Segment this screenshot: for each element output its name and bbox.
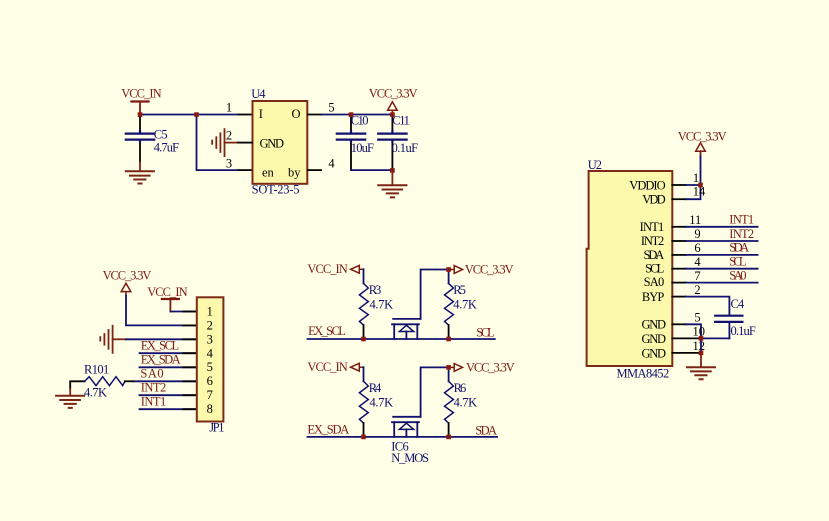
svg-text:R5: R5 [453,283,466,297]
svg-text:GND: GND [642,346,667,360]
wire JP1 pin7 INT2 [140,394,197,396]
IC U2 [587,158,673,380]
svg-text:VCC_IN: VCC_IN [307,360,347,374]
svg-text:1: 1 [693,171,699,185]
pin 2 wire BYP [672,296,686,298]
svg-text:INT2: INT2 [729,227,754,241]
junction R6 / SDA [446,435,451,440]
power VCC_3.3V (SDA) [449,360,515,374]
svg-text:6: 6 [207,374,213,388]
svg-text:MMA8452: MMA8452 [617,367,670,381]
junction VCC_IN / C5 [138,112,143,117]
svg-text:1: 1 [207,304,213,318]
svg-text:0.1uF: 0.1uF [731,324,756,338]
svg-text:C10: C10 [351,114,369,128]
capacitor C5 [126,117,179,171]
pin 6 wire SDA [672,254,686,256]
svg-text:INT2: INT2 [641,234,664,248]
junction top rail / U4 pin3 branch [194,112,199,117]
svg-text:BYP: BYP [642,290,664,304]
capacitor C4 [715,297,756,338]
pin 14 wire [672,198,686,200]
wire top rail to U4 pin1 [140,114,239,116]
svg-text:R4: R4 [369,381,382,395]
svg-text:SCL: SCL [645,262,664,276]
power VCC_3.3V above C11 [369,87,418,113]
power VCC_3.3V (U2) [678,129,727,185]
svg-text:R101: R101 [84,363,109,377]
svg-text:EX_SDA: EX_SDA [307,423,349,437]
svg-text:3: 3 [226,157,232,171]
wire JP1 pin4 EX_SCL [140,352,197,354]
junction U2 GND / C4 [699,336,704,341]
pin 3 stub U4 [239,169,253,171]
svg-text:GND: GND [642,318,667,332]
pin4 stub [308,169,321,171]
wire VCC_3.3V to JP1 pin2 [125,292,127,296]
wire JP1 pin6 SA0 [133,380,197,382]
wire JP1 pin3 [126,338,197,340]
bar ground at U4 pin2 [212,129,252,156]
svg-text:VCC_3.3V: VCC_3.3V [369,87,418,101]
power VCC_IN (SCL) [307,262,363,276]
svg-text:2: 2 [694,283,700,297]
wire junction to C4 bottom [701,337,729,339]
wire EX_SCL rail [308,338,495,340]
pin 9 wire INT2 [672,240,686,242]
svg-text:INT1: INT1 [141,395,167,409]
wire bottom rail C10-C11 [351,169,392,171]
wire GND vertical [700,338,702,353]
ground below C11 [378,172,406,197]
junction R6 top / VCC_3.3V [446,365,451,370]
svg-text:SA0: SA0 [729,268,746,282]
svg-text:9: 9 [694,227,700,241]
svg-text:VCC_3.3V: VCC_3.3V [103,269,152,283]
wire EX_SDA rail [308,436,498,438]
svg-text:5: 5 [207,360,213,374]
svg-text:U4: U4 [251,87,266,101]
pin stubs JP1 [183,311,197,313]
power VCC_IN (JP1) [147,285,187,312]
svg-text:SA0: SA0 [644,275,665,289]
IC U4 [226,87,336,197]
svg-text:en: en [262,165,275,179]
pin 7 wire SA0 [672,282,686,284]
resistor R6 [445,367,478,437]
svg-text:SCL: SCL [729,255,746,269]
pin 4 wire SCL [672,268,686,270]
svg-text:SOT-23-5: SOT-23-5 [252,183,300,197]
capacitor C11 [378,114,418,171]
svg-text:3: 3 [207,332,213,346]
junction C11 bottom / ground [390,168,395,173]
svg-text:11: 11 [689,213,701,227]
pin 5 wire GND [672,323,686,325]
svg-text:U2: U2 [588,158,602,172]
resistor R4 [359,381,393,437]
svg-text:C11: C11 [392,114,410,128]
wire U4 pin5 rail [322,114,393,116]
n-mosfet IC6 [391,367,448,465]
svg-text:I: I [259,107,263,121]
pin 12 wire GND [672,352,701,354]
svg-text:4.7K: 4.7K [370,297,394,311]
bar ground at JP1 pin3 [100,326,126,353]
wire VCC_IN to JP1 pin1 [170,311,196,313]
svg-text:4: 4 [207,346,214,360]
svg-text:VCC_IN: VCC_IN [121,87,161,101]
svg-text:VCC_3.3V: VCC_3.3V [678,129,727,143]
resistor R5 [445,270,477,340]
power VCC_IN (top left) [121,87,161,113]
svg-text:7: 7 [207,388,213,402]
resistor R3 [359,283,393,339]
wire JP1 pin8 INT1 [140,408,197,410]
ground at R101 [56,396,84,408]
svg-text:5: 5 [694,311,700,325]
power VCC_IN (SDA) [307,360,363,374]
power VCC_3.3V (SCL) [449,262,514,276]
svg-text:VDD: VDD [642,193,665,207]
junction C11 top / VCC_3.3V [390,112,395,117]
pin 1 wire [672,184,686,186]
junction R5 top / VCC_3.3V [446,267,451,272]
svg-text:VCC_3.3V: VCC_3.3V [466,360,515,374]
svg-text:4.7uF: 4.7uF [154,140,179,154]
junction U2 GND pin12 [699,351,704,356]
ground below U2 [687,367,715,379]
pin 10 wire GND [672,337,701,339]
svg-text:N_MOS: N_MOS [391,451,429,465]
svg-text:O: O [291,107,300,121]
svg-text:0.1uF: 0.1uF [392,141,419,155]
svg-text:6: 6 [694,241,700,255]
svg-text:INT2: INT2 [141,381,167,395]
junction U2 pin1 / VCC_3.3V [698,183,703,188]
svg-text:INT1: INT1 [640,220,665,234]
svg-text:10uF: 10uF [351,141,374,155]
resistor R101 [70,363,133,400]
capacitor C10 [337,114,374,171]
svg-text:VCC_IN: VCC_IN [307,262,347,276]
svg-text:by: by [288,165,301,179]
svg-text:4.7K: 4.7K [454,395,478,409]
pin 5 stub U4 [308,114,322,116]
svg-text:2: 2 [207,318,213,332]
ground below C5 [126,171,154,183]
power VCC_3.3V (JP1) [103,269,152,292]
pin 11 wire INT1 [672,226,686,228]
svg-text:SCL: SCL [476,325,495,339]
svg-text:SDA: SDA [475,424,497,438]
svg-text:C4: C4 [731,297,746,311]
svg-text:SDA: SDA [644,248,665,262]
pin 1 stub U4 [239,114,253,116]
svg-text:8: 8 [207,402,213,416]
svg-text:SA0: SA0 [140,367,163,381]
svg-text:GND: GND [260,137,285,151]
svg-text:INT1: INT1 [729,213,754,227]
svg-text:EX_SDA: EX_SDA [141,353,181,367]
junction R3 / EX_SCL [361,337,366,342]
svg-text:1: 1 [226,100,232,114]
svg-text:VDDIO: VDDIO [629,178,665,192]
svg-text:JP1: JP1 [209,421,224,435]
wire down to U4 pin3 [197,115,239,171]
svg-text:7: 7 [694,269,700,283]
junction R5 / SCL [446,337,451,342]
svg-text:EX_SCL: EX_SCL [141,339,179,353]
svg-text:R3: R3 [369,283,382,297]
svg-text:2: 2 [226,128,232,142]
wire JP1 pin5 EX_SDA [140,366,197,368]
svg-text:VCC_IN: VCC_IN [147,285,187,299]
wire VCC_IN down to R4 [363,367,365,381]
svg-text:5: 5 [328,100,334,114]
svg-text:R6: R6 [454,381,467,395]
svg-text:4: 4 [328,157,335,171]
svg-text:4.7K: 4.7K [370,395,394,409]
svg-text:4.7K: 4.7K [84,386,107,400]
svg-text:4: 4 [694,255,701,269]
connector JP1 [197,297,225,434]
svg-text:VCC_3.3V: VCC_3.3V [465,262,514,276]
n-mosfet Q1 [392,270,449,340]
junction R4 / EX_SDA [361,435,366,440]
junction C10 top [349,112,354,117]
svg-text:EX_SCL: EX_SCL [308,324,346,338]
wire VCC_IN down to R3 [363,269,365,283]
svg-text:4.7K: 4.7K [453,297,477,311]
svg-text:GND: GND [642,332,667,346]
svg-text:SDA: SDA [729,241,749,255]
